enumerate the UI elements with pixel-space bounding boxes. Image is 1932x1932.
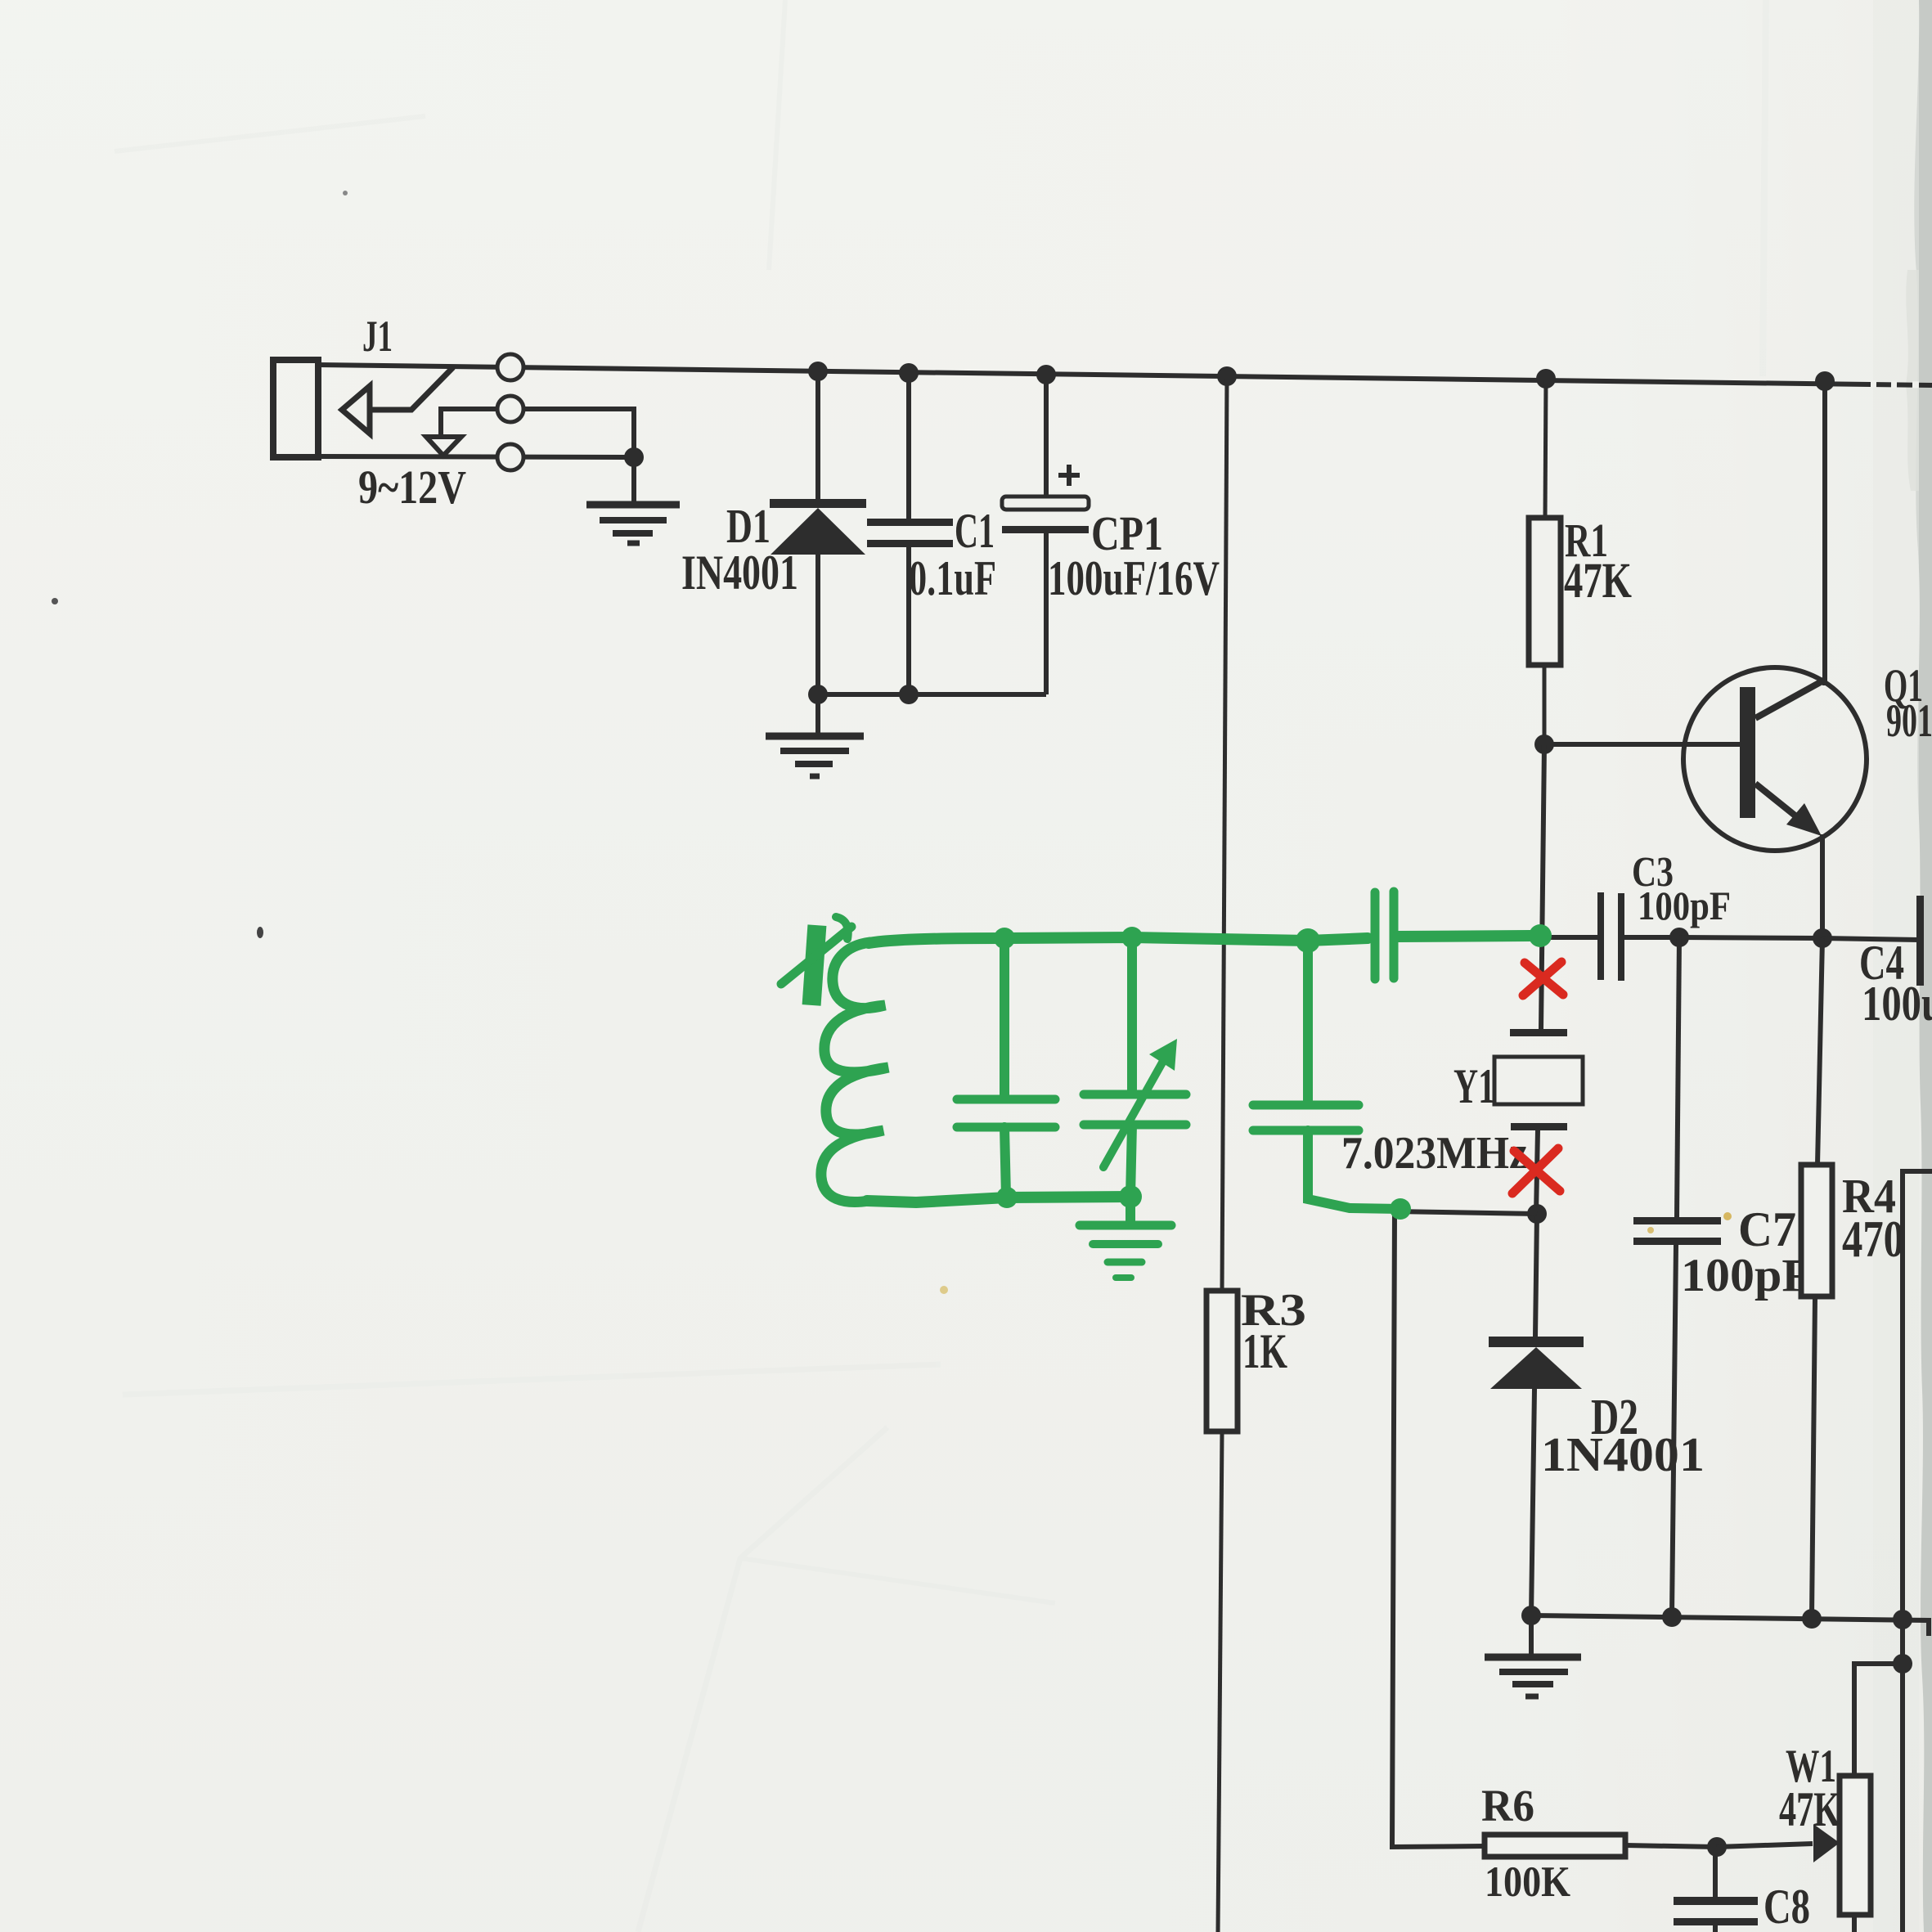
green ground bbox=[1080, 1197, 1171, 1278]
diode D2 bbox=[1489, 1214, 1584, 1615]
ground (below D2) bbox=[1485, 1615, 1581, 1696]
capacitor CP1 (electrolytic) bbox=[1002, 374, 1089, 694]
junction Q1 base node bbox=[1534, 735, 1554, 754]
potentiometer W1 wiper arrow bbox=[1717, 1824, 1840, 1862]
diode D1 bbox=[770, 370, 866, 694]
capacitor C4 bbox=[1822, 896, 1924, 986]
svg-text:9~12V: 9~12V bbox=[358, 461, 466, 514]
capacitor C3 bbox=[1541, 892, 1679, 981]
wire right edge column bbox=[1903, 1171, 1932, 1932]
junction C7 tap bbox=[1669, 928, 1689, 947]
svg-text:J1: J1 bbox=[362, 312, 393, 361]
resistor R1 bbox=[1529, 379, 1561, 744]
wire base node to Q1 bbox=[1544, 742, 1741, 747]
wire crystal node to R6 bbox=[1392, 1211, 1537, 1847]
junction R1 top on rail bbox=[1536, 369, 1556, 389]
svg-text:100u: 100u bbox=[1862, 977, 1932, 1031]
red X mark bottom (crystal disconnected) bbox=[1512, 1148, 1560, 1193]
green junction blobs top wire bbox=[994, 928, 1015, 949]
green inductor coil bbox=[821, 942, 888, 1202]
junction D2 on ground rail bbox=[1521, 1606, 1541, 1625]
green variable capacitor bbox=[1084, 937, 1186, 1197]
ground (filter stage) bbox=[766, 694, 864, 776]
junction CP1 top on rail bbox=[1036, 365, 1056, 384]
green wire bottom bbox=[867, 1197, 1133, 1202]
green wire top bbox=[869, 937, 1368, 943]
capacitor C1 bbox=[867, 372, 953, 694]
junction W1 top tap bbox=[1893, 1654, 1912, 1674]
svg-text:100K: 100K bbox=[1485, 1858, 1570, 1906]
svg-text:C1: C1 bbox=[955, 504, 995, 558]
wire bottom ground rail bbox=[1531, 1615, 1929, 1636]
junction C1 bottom bbox=[899, 685, 919, 704]
svg-text:0.1uF: 0.1uF bbox=[909, 551, 996, 605]
green node at crystal top wire bbox=[1529, 924, 1552, 947]
svg-text:100pF: 100pF bbox=[1638, 883, 1731, 928]
green antenna tap mark bbox=[781, 917, 851, 1006]
junction C7 on ground rail bbox=[1662, 1607, 1682, 1627]
potentiometer W1 bbox=[1840, 1664, 1903, 1932]
junction R3 column on rail bbox=[1217, 366, 1237, 386]
svg-text:1K: 1K bbox=[1242, 1324, 1287, 1378]
crystal Y1 bbox=[1494, 1029, 1583, 1214]
green capacitor (left fixed) bbox=[957, 938, 1055, 1197]
wire R3 column upper bbox=[1222, 376, 1227, 1291]
svg-text:100uF/16V: 100uF/16V bbox=[1048, 551, 1220, 605]
junction C1 top on rail bbox=[899, 363, 919, 383]
wire J1 tip to +V rail bbox=[370, 367, 453, 410]
junction J1 sleeve node bbox=[624, 447, 644, 467]
wire Q1 emitter down bbox=[1820, 834, 1825, 938]
wire R3 column lower bbox=[1218, 1431, 1222, 1932]
transistor Q1 bbox=[1683, 667, 1867, 851]
svg-text:470: 470 bbox=[1842, 1211, 1904, 1268]
resistor R3 bbox=[1206, 1291, 1238, 1431]
svg-text:47K: 47K bbox=[1779, 1782, 1840, 1836]
svg-text:9018: 9018 bbox=[1886, 695, 1932, 747]
resistor R6 bbox=[1485, 1835, 1717, 1857]
svg-text:7.023MHz: 7.023MHz bbox=[1341, 1128, 1528, 1179]
ground (power jack) bbox=[586, 457, 680, 543]
J1 pin contact circles bbox=[497, 354, 523, 470]
wire base node to crystal (through red X) bbox=[1541, 744, 1544, 1029]
green node at crystal bottom wire bbox=[1390, 1198, 1411, 1220]
green junction blobs bottom wire bbox=[996, 1187, 1018, 1208]
wire J1 switch pin bbox=[441, 409, 634, 457]
svg-text:C7: C7 bbox=[1738, 1202, 1796, 1256]
connector J1 barrel jack body bbox=[273, 360, 318, 457]
junction crystal bottom node bbox=[1527, 1204, 1547, 1224]
green series capacitor bbox=[1375, 892, 1530, 979]
junction Q1 collector on rail bbox=[1815, 371, 1835, 391]
svg-text:47K: 47K bbox=[1564, 554, 1632, 609]
junction D1 bottom bbox=[808, 685, 828, 704]
green capacitor (mid) with drop wire bbox=[1253, 941, 1400, 1209]
svg-text:C8: C8 bbox=[1764, 1880, 1810, 1932]
capacitor C7 bbox=[1633, 937, 1721, 1615]
wire C3 to emitter node bbox=[1679, 937, 1822, 938]
wire Q1 collector to rail bbox=[1822, 381, 1827, 685]
svg-text:100pF: 100pF bbox=[1681, 1250, 1812, 1301]
wire D1-C1-CP1 bottom bbox=[818, 692, 1046, 697]
svg-text:R6: R6 bbox=[1481, 1781, 1534, 1831]
junction R6/C8/wiper node bbox=[1707, 1837, 1727, 1857]
wire J1 sleeve to ground bbox=[318, 456, 634, 457]
junction R4 on ground rail bbox=[1802, 1609, 1822, 1629]
junction D1 top on rail bbox=[808, 362, 828, 381]
junction emitter node bbox=[1813, 928, 1832, 948]
capacitor C8 bbox=[1674, 1847, 1758, 1932]
svg-text:IN4001: IN4001 bbox=[681, 546, 798, 600]
wire +V top rail bbox=[318, 365, 1932, 385]
resistor R4 bbox=[1801, 938, 1832, 1617]
svg-text:Y1: Y1 bbox=[1453, 1059, 1495, 1113]
J1 tip contact arrow bbox=[342, 386, 370, 434]
red X mark top (crystal disconnected) bbox=[1523, 962, 1563, 995]
junction right column on ground rail bbox=[1893, 1610, 1912, 1629]
J1 switch contact triangle bbox=[426, 437, 461, 456]
svg-text:1N4001: 1N4001 bbox=[1541, 1427, 1705, 1481]
